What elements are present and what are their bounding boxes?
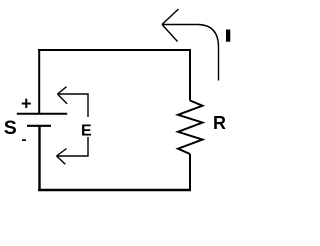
svg-text:+: + bbox=[21, 94, 32, 114]
svg-text:-: - bbox=[22, 131, 27, 148]
svg-text:S: S bbox=[4, 117, 17, 139]
svg-text:E: E bbox=[81, 122, 92, 139]
svg-text:R: R bbox=[213, 113, 226, 133]
